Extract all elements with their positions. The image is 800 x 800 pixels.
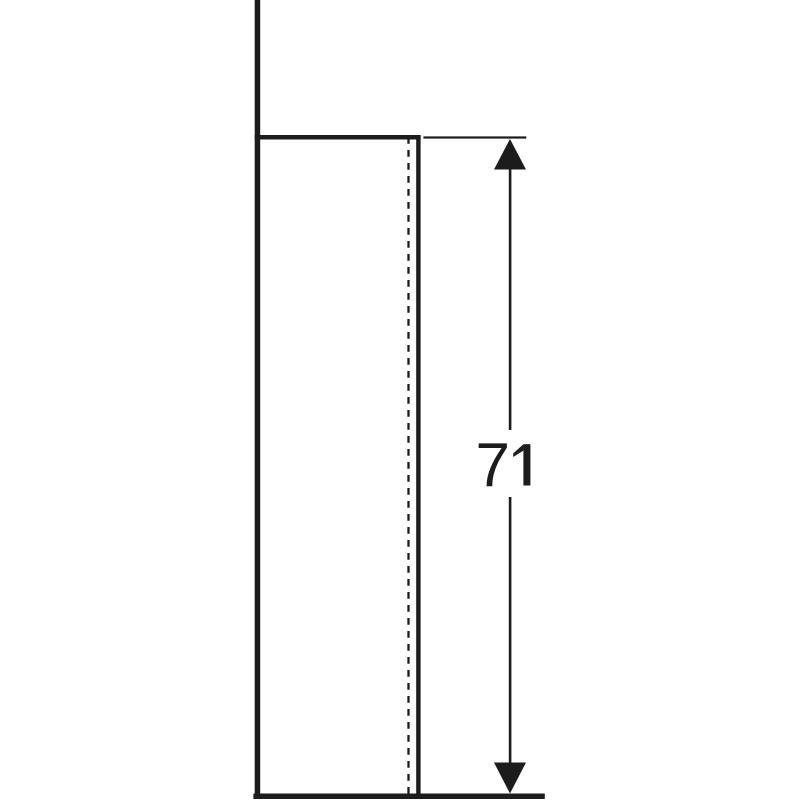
dimension label digit 1 stem	[523, 444, 530, 485]
top arrowhead	[494, 139, 526, 170]
svg-text:7: 7	[476, 431, 510, 500]
wall line (left vertical)	[255, 0, 261, 799]
floor line (bottom)	[253, 794, 544, 800]
cabinet right edge	[416, 135, 420, 799]
cabinet top edge	[255, 135, 421, 140]
dimension line upper segment	[509, 168, 512, 430]
dashed panel line	[407, 137, 409, 794]
dimension line lower segment	[509, 497, 512, 764]
dimension label digit 1 flag	[513, 444, 523, 457]
bottom arrowhead	[494, 763, 526, 794]
dimension extension line (top)	[423, 136, 526, 138]
